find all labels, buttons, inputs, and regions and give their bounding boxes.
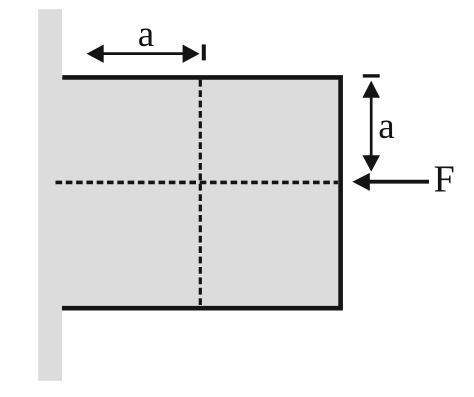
dimension arrow a (vertical, right) (362, 81, 380, 172)
svg-text:F: F (434, 158, 455, 200)
dimension arrow a (horizontal, top) (87, 45, 200, 63)
wall (fixed support strip) (38, 9, 62, 381)
vertical dashed centerline (199, 80, 202, 307)
plate fill (57, 76, 343, 309)
tick at end of horizontal dimension (202, 44, 206, 60)
plate border (62, 77, 341, 308)
horizontal dashed centerline (56, 181, 339, 185)
force arrow F (352, 173, 429, 191)
svg-text:a: a (378, 106, 394, 147)
tick at top of vertical dimension (363, 74, 380, 77)
svg-text:a: a (138, 14, 154, 55)
